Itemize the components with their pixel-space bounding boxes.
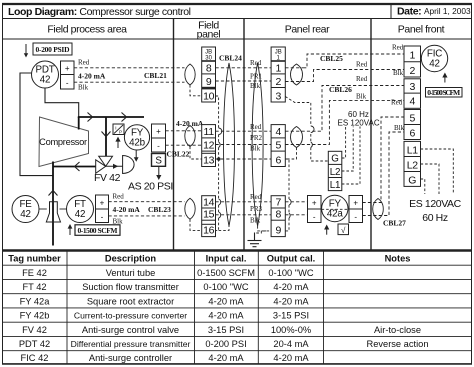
- svg-text:ES 120VAC: ES 120VAC: [409, 198, 461, 210]
- wire terminal 13 to JB1-6: [216, 158, 272, 160]
- svg-text:42: 42: [75, 209, 86, 220]
- svg-text:FY 42a: FY 42a: [20, 296, 51, 306]
- svg-text:Notes: Notes: [385, 254, 411, 264]
- link venturi to FT 42: [60, 208, 68, 210]
- shield bus terminal 10 to 13 to 16: [216, 96, 219, 230]
- svg-text:Blk: Blk: [393, 69, 404, 77]
- FT 42 range label 0-1500 SCFM: [75, 225, 120, 236]
- svg-text:L1: L1: [330, 180, 341, 191]
- svg-text:+: +: [312, 199, 317, 208]
- FY 42a input arrow: [326, 229, 328, 235]
- svg-text:5: 5: [409, 112, 415, 124]
- svg-text:12: 12: [203, 139, 214, 151]
- shield jumper 6 to 9: [285, 159, 289, 231]
- wire FY42a minus to FIC terminal 6: [363, 132, 405, 216]
- svg-text:CBL21: CBL21: [144, 71, 167, 80]
- svg-text:√: √: [341, 226, 346, 235]
- cable CBL21 bundle: [185, 64, 195, 85]
- terminal strip L1 L2 G: [404, 141, 421, 186]
- svg-text:FE 42: FE 42: [22, 268, 47, 278]
- svg-text:Panel rear: Panel rear: [285, 24, 330, 36]
- svg-text:Red: Red: [78, 59, 90, 67]
- svg-text:100%-0%: 100%-0%: [271, 325, 311, 335]
- power wire G front: [421, 179, 425, 194]
- svg-text:0-100 "WC: 0-100 "WC: [203, 282, 248, 292]
- control valve FV 42 body: [99, 156, 113, 166]
- terminal strip 14-16: [202, 196, 216, 237]
- shield wire CBL21 to terminal 10: [190, 85, 202, 96]
- svg-text:42: 42: [40, 75, 51, 86]
- cable CBL24 bundle rear side: [252, 63, 263, 226]
- terminal strip FIC 1-2: [404, 46, 421, 77]
- anti-surge controller FIC 42: [421, 45, 447, 71]
- svg-text:4-20 mA: 4-20 mA: [113, 205, 141, 214]
- svg-text:Anti-surge control valve: Anti-surge control valve: [82, 325, 179, 335]
- FY 42a output terminal box: [349, 196, 363, 223]
- svg-text:+: +: [100, 199, 105, 208]
- wire terminal 14 to JB1-7: [216, 201, 272, 203]
- svg-text:Red: Red: [356, 75, 368, 83]
- wire terminal 9 to JB1-2: [216, 80, 272, 82]
- svg-text:2: 2: [275, 76, 281, 88]
- wire JB1-4 to FIC terminal 3 (CBL26 red): [285, 86, 404, 132]
- input arrow to I/P: [117, 141, 119, 148]
- svg-text:3-15 PSI: 3-15 PSI: [273, 311, 309, 321]
- branch pipe to FV 42: [105, 117, 107, 156]
- svg-text:April 1, 2003: April 1, 2003: [424, 6, 471, 16]
- svg-text:G: G: [408, 174, 416, 186]
- flow arrow discharge 2: [122, 113, 127, 122]
- square root extractor FY 42a: [322, 195, 348, 221]
- svg-text:Field process area: Field process area: [47, 24, 127, 36]
- wire FY42b red: [166, 130, 202, 132]
- FY 42b air supply terminal S: [152, 154, 166, 167]
- svg-text:G: G: [331, 154, 338, 165]
- PANEL FRONT: [391, 44, 462, 225]
- flow arrow recycle left: [75, 162, 80, 171]
- svg-text:Date:: Date:: [397, 6, 421, 18]
- wire JB1-1 to FIC terminal 1 (CBL25 red): [285, 54, 404, 68]
- shield drain into CBL24: [219, 226, 229, 230]
- svg-text:FV 42: FV 42: [22, 325, 47, 335]
- shield CBL26 drain to terminal 6: [285, 148, 296, 160]
- svg-text:1: 1: [275, 63, 281, 75]
- venturi body: [46, 202, 60, 222]
- PDT 42 down arrow: [25, 44, 27, 55]
- svg-text:5: 5: [275, 139, 281, 151]
- terminal 8: [202, 73, 216, 75]
- svg-text:0-1500 SCFM: 0-1500 SCFM: [78, 226, 118, 235]
- svg-text:Red: Red: [250, 123, 262, 131]
- flow arrow suction up: [49, 191, 58, 196]
- svg-text:9: 9: [206, 76, 212, 88]
- svg-text:CBL25: CBL25: [320, 54, 343, 63]
- venturi tube FE 42: [12, 196, 39, 223]
- discharge pipe: [78, 116, 144, 118]
- svg-text:FT 42: FT 42: [22, 282, 46, 292]
- svg-text:Air-to-close: Air-to-close: [374, 325, 421, 335]
- svg-text:8: 8: [275, 209, 281, 221]
- svg-text:Compressor: Compressor: [39, 137, 87, 147]
- svg-text:-: -: [66, 79, 69, 88]
- svg-text:0-200 PSID: 0-200 PSID: [36, 45, 71, 54]
- wire JB1-8 to FY42a minus: [285, 214, 307, 216]
- wire FY42b blk: [166, 144, 202, 146]
- svg-text:42: 42: [429, 59, 440, 70]
- svg-text:Blk: Blk: [78, 84, 89, 92]
- svg-text:Input cal.: Input cal.: [206, 254, 247, 264]
- compressor discharge stub: [78, 117, 80, 130]
- flow arrow discharge 1: [88, 113, 93, 122]
- FY 42a input terminal box: [308, 196, 322, 223]
- svg-text:CBL24: CBL24: [219, 54, 242, 63]
- svg-text:Reverse action: Reverse action: [366, 339, 428, 349]
- cable CBL27 bundle: [373, 199, 384, 220]
- differential pressure transmitter PDT 42: [32, 61, 59, 88]
- svg-text:FIC 42: FIC 42: [21, 353, 49, 363]
- svg-text:-: -: [313, 213, 316, 222]
- svg-text:L1: L1: [407, 144, 418, 156]
- svg-text:1: 1: [409, 50, 415, 62]
- PDT 42 range label 0-200 PSID: [33, 43, 72, 55]
- svg-text:FY 42b: FY 42b: [20, 311, 50, 321]
- svg-text:-: -: [157, 142, 160, 151]
- svg-text:AS 20 PSI: AS 20 PSI: [128, 181, 173, 193]
- svg-text:CBL22: CBL22: [167, 150, 190, 159]
- terminal strip JB1 4-6: [271, 125, 285, 167]
- terminal strip FIC 3-4: [404, 79, 421, 109]
- suction flow transmitter FT 42: [67, 196, 94, 223]
- ground symbol: [254, 233, 256, 241]
- svg-text:7: 7: [275, 196, 281, 208]
- wire FT red: [109, 201, 185, 203]
- wire JB1-5 to FIC terminal 4 (CBL26 blk): [285, 100, 404, 144]
- svg-text:-: -: [354, 213, 357, 222]
- wire PDT blk: [74, 81, 185, 83]
- cable CBL22 bundle: [185, 126, 195, 147]
- svg-text:Panel front: Panel front: [398, 24, 445, 36]
- svg-text:4-20 mA: 4-20 mA: [208, 296, 244, 306]
- svg-text:PR2: PR2: [250, 134, 263, 142]
- svg-text:3: 3: [275, 91, 281, 103]
- svg-text:0-200 PSI: 0-200 PSI: [205, 339, 246, 349]
- svg-text:4: 4: [409, 96, 415, 108]
- cable CBL25 bundle: [291, 64, 303, 85]
- I/P converter symbol FY 42b: [113, 124, 124, 135]
- FIELD PANEL: [185, 47, 271, 237]
- svg-text:P: P: [119, 130, 122, 135]
- svg-text:Blk: Blk: [113, 218, 124, 226]
- svg-text:0-1500 SCFM: 0-1500 SCFM: [197, 268, 255, 278]
- svg-text:42b: 42b: [129, 138, 145, 149]
- wire FT blk: [109, 215, 185, 217]
- svg-text:ES 120VAC: ES 120VAC: [338, 119, 380, 128]
- svg-text:Blk: Blk: [394, 124, 405, 132]
- shield wire CBL23 to terminal 16: [190, 219, 202, 230]
- recycle pipe: [53, 166, 96, 168]
- svg-text:+: +: [156, 127, 161, 136]
- terminal strip JB1: [271, 47, 285, 102]
- svg-text:-: -: [101, 213, 104, 222]
- compressor: [39, 117, 89, 167]
- svg-text:CBL23: CBL23: [148, 205, 171, 214]
- svg-text:CBL26: CBL26: [329, 85, 352, 94]
- svg-text:L2: L2: [407, 159, 418, 171]
- flow arrow down to valve: [102, 132, 111, 137]
- svg-text:+: +: [353, 199, 358, 208]
- svg-text:CBL27: CBL27: [383, 219, 406, 228]
- svg-text:Suction flow transmitter: Suction flow transmitter: [82, 282, 179, 292]
- svg-text:Red: Red: [391, 99, 403, 107]
- cable CBL23 bundle: [185, 198, 195, 219]
- svg-text:4-20 mA: 4-20 mA: [208, 353, 244, 363]
- svg-text:8: 8: [206, 63, 212, 75]
- PDT impulse line low side: [20, 73, 53, 176]
- svg-text:Blk: Blk: [250, 145, 261, 153]
- terminal strip JB30: [202, 47, 216, 102]
- power wire L1 front: [421, 149, 454, 194]
- FIC 42 range label: [426, 88, 463, 98]
- svg-text:Anti-surge controller: Anti-surge controller: [89, 353, 172, 363]
- svg-text:Differential pressure transmit: Differential pressure transmitter: [71, 339, 191, 349]
- svg-text:6: 6: [409, 127, 415, 139]
- svg-text:11: 11: [204, 126, 215, 138]
- svg-text:4-20 mA: 4-20 mA: [208, 311, 244, 321]
- svg-text:4-20 mA: 4-20 mA: [176, 119, 204, 128]
- svg-text:+: +: [65, 64, 70, 73]
- cable CBL26 bundle: [291, 127, 303, 148]
- svg-text:0-100 "WC: 0-100 "WC: [268, 268, 313, 278]
- FY 42a power terminal boxes G L2 L1: [328, 151, 342, 190]
- svg-text:PR1: PR1: [250, 73, 263, 81]
- wire JB1-2 to FIC terminal 2 (CBL25 blk): [285, 70, 404, 82]
- terminal strip JB1 7-9: [271, 196, 285, 237]
- power wire G: [342, 127, 346, 159]
- wire PDT red: [74, 67, 185, 69]
- svg-text:FV 42: FV 42: [94, 172, 121, 184]
- svg-text:PR3: PR3: [250, 205, 263, 213]
- svg-text:I: I: [115, 126, 116, 131]
- svg-text:60 Hz: 60 Hz: [422, 212, 448, 224]
- svg-text:4: 4: [275, 126, 281, 138]
- svg-text:4-20 mA: 4-20 mA: [78, 72, 106, 81]
- svg-text:panel: panel: [197, 29, 221, 41]
- wire FY42a plus to FIC terminal 5: [363, 117, 405, 203]
- svg-text:0-1500 SCFM: 0-1500 SCFM: [427, 88, 460, 97]
- FV 42 actuator diaphragm: [123, 156, 135, 174]
- svg-text:6: 6: [275, 155, 281, 167]
- power wire L2: [342, 127, 353, 172]
- svg-text:L2: L2: [330, 167, 341, 178]
- svg-text:Current-to-pressure converter: Current-to-pressure converter: [74, 311, 187, 321]
- svg-text:20-4 mA: 20-4 mA: [273, 339, 309, 349]
- svg-text:Tag number: Tag number: [8, 254, 61, 264]
- svg-text:42: 42: [20, 209, 31, 220]
- cable CBL24 bundle field side: [224, 63, 235, 226]
- wire terminal 12 to JB1-5: [216, 144, 272, 146]
- FY 42b output signal to actuator: [135, 150, 137, 158]
- PDT impulse line high side: [45, 88, 79, 117]
- svg-text:9: 9: [275, 225, 281, 237]
- wire JB1-7 to FY42a plus: [285, 201, 307, 203]
- wire terminal 15 to JB1-8: [216, 214, 272, 216]
- svg-text:Venturi tube: Venturi tube: [106, 268, 156, 278]
- junction dot shield bus at 13: [217, 157, 221, 161]
- wire terminal 11 to JB1-4: [216, 130, 272, 132]
- FE 42 link to venturi: [39, 208, 47, 210]
- square root function box: [338, 224, 349, 235]
- svg-text:Loop Diagram: Compressor surge: Loop Diagram: Compressor surge control: [8, 6, 191, 18]
- svg-text:Red: Red: [356, 61, 368, 69]
- power wire L1: [342, 127, 360, 185]
- svg-text:Red: Red: [392, 44, 404, 52]
- svg-text:10: 10: [203, 91, 214, 103]
- svg-text:Red: Red: [250, 193, 262, 201]
- ground wire from terminal 9: [255, 231, 267, 233]
- svg-text:4-20 mA: 4-20 mA: [273, 296, 309, 306]
- shield CBL25 from terminal 3: [285, 97, 328, 162]
- svg-text:PDT 42: PDT 42: [19, 339, 50, 349]
- svg-text:2: 2: [409, 65, 415, 77]
- FIELD PROCESS AREA: [12, 43, 204, 246]
- svg-text:15: 15: [203, 209, 214, 221]
- wire terminal 8 to JB1-1: [216, 67, 272, 69]
- FIC 42 arrow: [444, 77, 446, 83]
- svg-text:Blk: Blk: [250, 217, 261, 225]
- shield wire CBL22 to terminal 13: [190, 147, 202, 160]
- svg-text:Blk: Blk: [356, 93, 367, 101]
- air supply arrow: [158, 167, 160, 177]
- FT 42 up arrow: [69, 228, 71, 235]
- terminal strip FIC 5-6: [404, 110, 421, 140]
- PANEL REAR: [248, 47, 407, 247]
- svg-text:4-20 mA: 4-20 mA: [273, 282, 309, 292]
- svg-text:3: 3: [409, 81, 415, 93]
- svg-text:Description: Description: [105, 254, 156, 264]
- svg-text:13: 13: [203, 155, 214, 167]
- svg-text:16: 16: [203, 225, 214, 237]
- svg-text:Output cal.: Output cal.: [267, 254, 316, 264]
- power wire L2 front: [421, 164, 440, 194]
- svg-text:Square root extractor: Square root extractor: [87, 296, 174, 306]
- svg-text:4-20 mA: 4-20 mA: [273, 353, 309, 363]
- svg-text:Red: Red: [250, 59, 262, 67]
- terminal 1: [271, 73, 285, 75]
- suction pipe: [52, 162, 54, 246]
- svg-text:Red: Red: [113, 193, 125, 201]
- terminal strip 11-13: [202, 125, 216, 167]
- current-to-pressure converter FY 42b: [124, 125, 149, 150]
- shield CBL24 PR3 into terminal 9: [258, 226, 272, 231]
- TABLE: [2, 251, 472, 364]
- svg-text:42a: 42a: [327, 209, 343, 220]
- svg-text:3-15 PSI: 3-15 PSI: [208, 325, 244, 335]
- PDT 42 terminal box: [61, 61, 75, 89]
- TITLE TEXTS: [8, 6, 471, 41]
- svg-text:14: 14: [203, 196, 214, 208]
- svg-text:S: S: [155, 156, 162, 167]
- svg-text:Blk: Blk: [250, 82, 261, 90]
- FY 42b terminal box: [152, 124, 166, 152]
- FT 42 terminal box: [96, 195, 109, 223]
